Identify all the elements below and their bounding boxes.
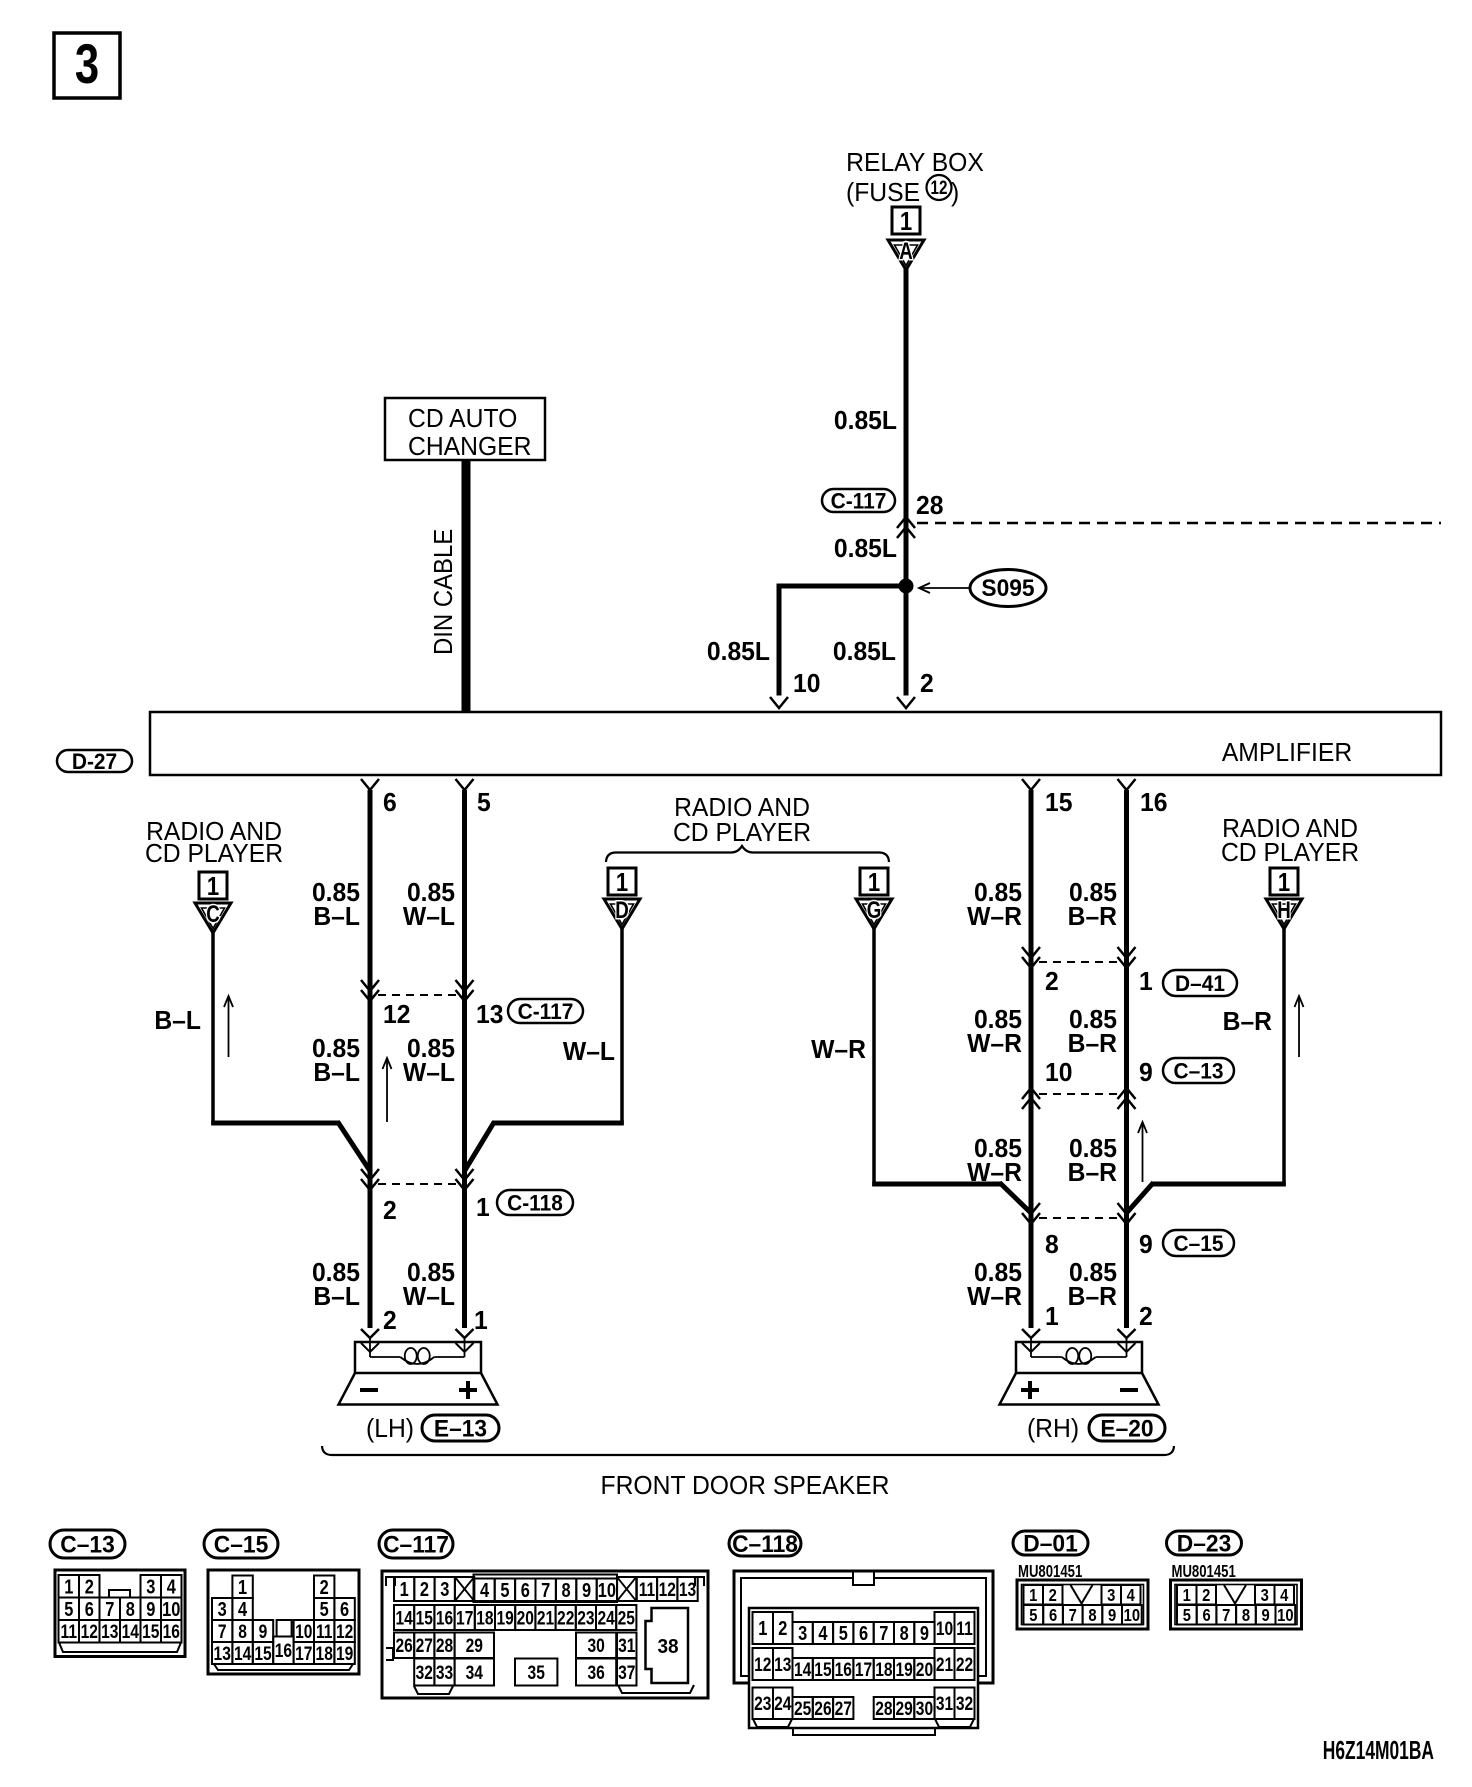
svg-text:B–R: B–R bbox=[1068, 1029, 1117, 1058]
connector C-117 pinout bbox=[379, 1530, 453, 1558]
svg-text:16: 16 bbox=[436, 1607, 454, 1629]
svg-text:7: 7 bbox=[879, 1622, 888, 1645]
svg-text:E–13: E–13 bbox=[434, 1415, 487, 1442]
svg-text:1: 1 bbox=[400, 1578, 409, 1601]
svg-text:18: 18 bbox=[476, 1607, 494, 1629]
svg-text:8: 8 bbox=[126, 1597, 135, 1620]
svg-text:W–R: W–R bbox=[967, 1029, 1022, 1058]
triangle connector H bbox=[1266, 899, 1302, 929]
svg-text:9: 9 bbox=[1262, 1606, 1270, 1626]
svg-text:1: 1 bbox=[1183, 1586, 1191, 1606]
svg-text:4: 4 bbox=[480, 1578, 490, 1601]
wire B-R from H bbox=[1282, 928, 1286, 1186]
connector pin box 1 (D) bbox=[608, 868, 636, 895]
svg-text:2: 2 bbox=[1139, 1302, 1153, 1331]
svg-text:10: 10 bbox=[1277, 1606, 1293, 1626]
svg-text:0.85L: 0.85L bbox=[834, 534, 897, 563]
svg-text:2: 2 bbox=[383, 1196, 397, 1225]
svg-text:9: 9 bbox=[1108, 1606, 1116, 1626]
svg-text:5: 5 bbox=[1029, 1606, 1037, 1626]
svg-text:18: 18 bbox=[875, 1658, 893, 1680]
front door speaker bracket bbox=[322, 1446, 1174, 1455]
svg-text:2: 2 bbox=[778, 1617, 787, 1640]
wire B-L diagonal bbox=[338, 1122, 371, 1172]
svg-text:12: 12 bbox=[659, 1578, 676, 1600]
svg-text:CD PLAYER: CD PLAYER bbox=[1221, 838, 1359, 867]
svg-text:38: 38 bbox=[657, 1636, 678, 1659]
svg-text:D–41: D–41 bbox=[1175, 971, 1225, 996]
page number box 3 bbox=[54, 33, 120, 98]
svg-text:(LH): (LH) bbox=[366, 1414, 414, 1443]
svg-text:29: 29 bbox=[895, 1697, 913, 1719]
fork terminal amplifier pin 5 bbox=[456, 779, 474, 790]
svg-text:12: 12 bbox=[754, 1653, 771, 1675]
svg-text:12: 12 bbox=[383, 1000, 410, 1029]
wire B-R diagonal bbox=[1127, 1183, 1154, 1214]
svg-text:12: 12 bbox=[81, 1621, 98, 1643]
svg-text:B–L: B–L bbox=[313, 902, 360, 931]
svg-text:3: 3 bbox=[798, 1622, 807, 1645]
svg-text:29: 29 bbox=[466, 1635, 484, 1657]
svg-text:14: 14 bbox=[794, 1658, 812, 1680]
svg-text:): ) bbox=[951, 178, 959, 207]
brace over D and G bbox=[606, 846, 889, 862]
svg-text:7: 7 bbox=[1069, 1606, 1077, 1626]
connector pin box 1 (C) bbox=[199, 872, 227, 899]
svg-text:32: 32 bbox=[956, 1693, 973, 1715]
chevrons D-41 crossing wire 16 bbox=[1118, 957, 1136, 968]
svg-text:4: 4 bbox=[1127, 1586, 1136, 1606]
svg-text:1: 1 bbox=[758, 1617, 767, 1640]
svg-text:6: 6 bbox=[1202, 1606, 1210, 1626]
svg-text:30: 30 bbox=[916, 1697, 933, 1719]
svg-text:28: 28 bbox=[916, 491, 943, 520]
svg-text:W–L: W–L bbox=[403, 1058, 455, 1087]
svg-text:B–R: B–R bbox=[1068, 902, 1117, 931]
svg-text:15: 15 bbox=[416, 1607, 434, 1629]
svg-text:1: 1 bbox=[474, 1306, 488, 1335]
wire B-R horizontal bbox=[1152, 1182, 1286, 1187]
svg-text:2: 2 bbox=[420, 1578, 429, 1601]
S095 label oval bbox=[970, 570, 1046, 607]
svg-text:C–13: C–13 bbox=[1174, 1059, 1224, 1084]
svg-text:32: 32 bbox=[416, 1661, 433, 1683]
triangle connector G bbox=[856, 899, 892, 929]
svg-text:1: 1 bbox=[616, 868, 628, 897]
connector C-13 capsule bbox=[1163, 1058, 1234, 1083]
svg-text:1: 1 bbox=[1139, 967, 1153, 996]
connector C-117 capsule (wire 28) bbox=[822, 489, 895, 512]
svg-text:2: 2 bbox=[85, 1575, 94, 1598]
svg-text:13: 13 bbox=[476, 1000, 503, 1029]
svg-text:(FUSE: (FUSE bbox=[846, 178, 920, 207]
splice junction S095 dot bbox=[899, 579, 914, 594]
svg-text:1: 1 bbox=[207, 872, 219, 901]
svg-text:C: C bbox=[206, 901, 220, 928]
chevrons D-41 crossing wire 15 bbox=[1022, 957, 1040, 968]
svg-text:B–R: B–R bbox=[1223, 1007, 1272, 1036]
fork terminal amplifier pin 16 bbox=[1118, 779, 1136, 790]
svg-text:37: 37 bbox=[618, 1661, 635, 1683]
svg-text:3: 3 bbox=[75, 33, 99, 95]
svg-text:3: 3 bbox=[1261, 1586, 1269, 1606]
connector pin box 1 (G) bbox=[860, 868, 888, 895]
connector D-41 capsule bbox=[1163, 970, 1237, 996]
svg-text:W–L: W–L bbox=[563, 1037, 615, 1066]
svg-text:4: 4 bbox=[818, 1622, 828, 1645]
arrow up (between B-L and W-L) bbox=[386, 1058, 388, 1122]
svg-text:B–L: B–L bbox=[313, 1282, 360, 1311]
svg-text:22: 22 bbox=[956, 1653, 973, 1675]
svg-text:B–R: B–R bbox=[1068, 1282, 1117, 1311]
svg-text:21: 21 bbox=[537, 1607, 555, 1629]
fork terminal wire 2 bbox=[897, 697, 915, 708]
wire from amplifier pin 15 bbox=[1029, 790, 1034, 1328]
svg-text:9: 9 bbox=[259, 1620, 268, 1642]
svg-text:16: 16 bbox=[275, 1640, 293, 1662]
dashed line to C-117 bbox=[917, 522, 1441, 525]
svg-text:17: 17 bbox=[855, 1658, 872, 1680]
svg-text:19: 19 bbox=[496, 1607, 514, 1629]
svg-text:14: 14 bbox=[234, 1642, 252, 1664]
dashed connector line C-117 bbox=[378, 994, 457, 996]
CD auto changer box bbox=[385, 398, 545, 460]
connector C-118 capsule bbox=[497, 1190, 573, 1215]
svg-text:1: 1 bbox=[900, 207, 912, 236]
svg-text:5: 5 bbox=[64, 1597, 73, 1620]
svg-text:27: 27 bbox=[835, 1697, 852, 1719]
svg-text:4: 4 bbox=[238, 1598, 248, 1621]
arrow up (B-L) bbox=[228, 996, 230, 1057]
svg-text:19: 19 bbox=[336, 1642, 354, 1664]
svg-text:(RH): (RH) bbox=[1027, 1414, 1079, 1443]
wire W-R horizontal bbox=[872, 1182, 1001, 1187]
svg-text:31: 31 bbox=[618, 1635, 636, 1657]
svg-text:3: 3 bbox=[440, 1578, 449, 1601]
svg-text:24: 24 bbox=[597, 1607, 615, 1629]
svg-text:W–R: W–R bbox=[967, 1158, 1022, 1187]
svg-text:C-117: C-117 bbox=[831, 489, 887, 514]
svg-text:CD AUTO: CD AUTO bbox=[408, 404, 517, 433]
connector pin box 1 (H) bbox=[1270, 868, 1298, 895]
svg-text:D-27: D-27 bbox=[72, 749, 117, 774]
svg-text:E–20: E–20 bbox=[1100, 1415, 1153, 1442]
DIN cable (thick wire) bbox=[462, 460, 471, 711]
svg-text:24: 24 bbox=[774, 1693, 792, 1715]
svg-text:W–R: W–R bbox=[811, 1035, 866, 1064]
svg-text:5: 5 bbox=[320, 1598, 329, 1621]
front door speaker RH bbox=[1022, 1329, 1040, 1338]
svg-text:15: 15 bbox=[1045, 788, 1072, 817]
svg-text:5: 5 bbox=[477, 788, 491, 817]
svg-text:13: 13 bbox=[679, 1578, 697, 1600]
connector C-13 pinout bbox=[50, 1530, 125, 1558]
svg-text:10: 10 bbox=[1124, 1606, 1140, 1626]
svg-text:10: 10 bbox=[793, 669, 820, 698]
connector C-118 pinout bbox=[729, 1531, 801, 1556]
connector pin box 1 (relay box) bbox=[892, 207, 920, 234]
svg-text:W–R: W–R bbox=[967, 902, 1022, 931]
svg-text:11: 11 bbox=[639, 1578, 656, 1600]
svg-text:6: 6 bbox=[1049, 1606, 1057, 1626]
svg-text:23: 23 bbox=[754, 1693, 772, 1715]
chevrons C-13 crossing wire 16 bbox=[1118, 1088, 1136, 1099]
arrow up (B-R) bbox=[1298, 996, 1300, 1057]
svg-text:C–15: C–15 bbox=[1174, 1231, 1224, 1256]
connector D-27 capsule bbox=[57, 750, 132, 772]
svg-text:8: 8 bbox=[562, 1578, 571, 1601]
svg-text:3: 3 bbox=[1107, 1586, 1115, 1606]
svg-text:RELAY BOX: RELAY BOX bbox=[846, 148, 984, 177]
svg-text:CD PLAYER: CD PLAYER bbox=[673, 818, 811, 847]
svg-text:6: 6 bbox=[383, 788, 397, 817]
wire from amplifier pin 16 bbox=[1124, 790, 1129, 1328]
connector E-13 capsule bbox=[422, 1415, 499, 1441]
svg-text:9: 9 bbox=[1139, 1058, 1153, 1087]
wire from amplifier pin 6 bbox=[368, 790, 373, 1328]
svg-text:20: 20 bbox=[916, 1658, 933, 1680]
svg-text:8: 8 bbox=[238, 1620, 247, 1642]
fork terminal amplifier pin 6 bbox=[361, 779, 379, 790]
svg-text:5: 5 bbox=[500, 1578, 509, 1601]
svg-text:11: 11 bbox=[61, 1621, 78, 1643]
svg-text:12: 12 bbox=[336, 1620, 353, 1642]
svg-text:8: 8 bbox=[1045, 1230, 1059, 1259]
svg-text:8: 8 bbox=[1242, 1606, 1250, 1626]
svg-text:DIN CABLE: DIN CABLE bbox=[429, 529, 458, 655]
svg-text:C–117: C–117 bbox=[383, 1531, 449, 1558]
chevrons C-13 crossing wire 15 bbox=[1022, 1088, 1040, 1099]
svg-text:2: 2 bbox=[1045, 967, 1059, 996]
svg-text:13: 13 bbox=[101, 1621, 119, 1643]
svg-text:W–L: W–L bbox=[403, 1282, 455, 1311]
chevrons C-118 crossing left wire bbox=[361, 1179, 379, 1190]
svg-text:23: 23 bbox=[577, 1607, 595, 1629]
front door speaker LH bbox=[361, 1329, 379, 1338]
svg-text:7: 7 bbox=[218, 1620, 227, 1642]
connector D-01 pinout bbox=[1013, 1531, 1088, 1555]
svg-text:15: 15 bbox=[254, 1642, 272, 1664]
svg-text:20: 20 bbox=[517, 1607, 534, 1629]
chevrons C-15 crossing wire 16 bbox=[1118, 1213, 1136, 1224]
triangle connector A bbox=[888, 240, 924, 270]
svg-text:W–L: W–L bbox=[403, 902, 455, 931]
svg-text:14: 14 bbox=[395, 1607, 413, 1629]
svg-text:1: 1 bbox=[1029, 1586, 1037, 1606]
svg-text:36: 36 bbox=[587, 1661, 605, 1683]
svg-text:10: 10 bbox=[1045, 1058, 1072, 1087]
svg-text:12: 12 bbox=[931, 176, 948, 198]
svg-text:15: 15 bbox=[142, 1621, 160, 1643]
svg-text:0.85L: 0.85L bbox=[833, 637, 896, 666]
svg-text:1: 1 bbox=[868, 868, 880, 897]
svg-text:1: 1 bbox=[1278, 868, 1290, 897]
svg-text:28: 28 bbox=[436, 1635, 454, 1657]
svg-text:0.85L: 0.85L bbox=[707, 637, 770, 666]
svg-text:11: 11 bbox=[316, 1620, 333, 1642]
svg-text:18: 18 bbox=[316, 1642, 334, 1664]
svg-text:7: 7 bbox=[105, 1597, 114, 1620]
svg-text:C-117: C-117 bbox=[518, 999, 574, 1024]
chevrons C-117 crossing left wire bbox=[361, 990, 379, 1001]
svg-text:A: A bbox=[899, 238, 913, 265]
svg-text:B–R: B–R bbox=[1068, 1158, 1117, 1187]
connector C-15 capsule bbox=[1163, 1230, 1234, 1256]
svg-text:CHANGER: CHANGER bbox=[408, 432, 531, 461]
svg-text:C–15: C–15 bbox=[214, 1531, 268, 1558]
wire B-L horizontal bbox=[211, 1121, 339, 1126]
svg-text:10: 10 bbox=[162, 1597, 180, 1620]
svg-text:28: 28 bbox=[875, 1697, 893, 1719]
svg-text:G: G bbox=[867, 897, 882, 924]
svg-text:6: 6 bbox=[521, 1578, 530, 1601]
wire W-L diagonal bbox=[465, 1122, 495, 1172]
svg-text:1: 1 bbox=[1045, 1302, 1059, 1331]
svg-text:16: 16 bbox=[1140, 788, 1167, 817]
svg-text:D–01: D–01 bbox=[1023, 1530, 1077, 1557]
fork terminal amplifier pin 15 bbox=[1022, 779, 1040, 790]
svg-text:7: 7 bbox=[1222, 1606, 1230, 1626]
connector C-15 pinout bbox=[204, 1530, 278, 1558]
svg-text:16: 16 bbox=[163, 1621, 181, 1643]
svg-text:25: 25 bbox=[794, 1697, 812, 1719]
svg-text:34: 34 bbox=[466, 1661, 484, 1683]
svg-text:H: H bbox=[1277, 897, 1291, 924]
chevrons C-117 crossing right wire bbox=[456, 990, 474, 1001]
svg-text:2: 2 bbox=[1049, 1586, 1057, 1606]
svg-text:15: 15 bbox=[814, 1658, 832, 1680]
svg-text:C–13: C–13 bbox=[60, 1531, 114, 1558]
wire from amplifier pin 5 bbox=[462, 790, 467, 1328]
wire W-R diagonal bbox=[1000, 1183, 1032, 1214]
svg-text:2: 2 bbox=[1202, 1586, 1210, 1606]
dashed connector line C-118 bbox=[378, 1183, 457, 1185]
svg-text:25: 25 bbox=[618, 1607, 636, 1629]
svg-text:B–L: B–L bbox=[313, 1058, 360, 1087]
svg-text:8: 8 bbox=[1088, 1606, 1096, 1626]
svg-text:2: 2 bbox=[383, 1306, 397, 1335]
svg-text:D–23: D–23 bbox=[1177, 1530, 1231, 1557]
triangle connector C bbox=[195, 903, 231, 933]
svg-text:19: 19 bbox=[895, 1658, 913, 1680]
svg-text:9: 9 bbox=[146, 1597, 155, 1620]
svg-text:33: 33 bbox=[436, 1661, 454, 1683]
svg-text:D: D bbox=[615, 897, 629, 924]
svg-text:9: 9 bbox=[582, 1578, 591, 1601]
connector E-20 capsule bbox=[1089, 1415, 1165, 1441]
wire B-L from C bbox=[211, 932, 215, 1125]
svg-text:5: 5 bbox=[839, 1622, 848, 1645]
splice branch wire (horizontal) bbox=[777, 584, 907, 589]
arrow from S095 to junction bbox=[921, 587, 970, 589]
svg-text:5: 5 bbox=[1183, 1606, 1191, 1626]
svg-text:14: 14 bbox=[122, 1621, 140, 1643]
svg-text:6: 6 bbox=[85, 1597, 94, 1620]
svg-text:C-118: C-118 bbox=[507, 1191, 563, 1216]
svg-text:17: 17 bbox=[295, 1642, 312, 1664]
wire W-R from G bbox=[872, 928, 876, 1186]
svg-text:9: 9 bbox=[920, 1622, 929, 1645]
svg-text:2: 2 bbox=[920, 669, 934, 698]
svg-text:10: 10 bbox=[598, 1578, 616, 1601]
svg-text:26: 26 bbox=[395, 1635, 413, 1657]
svg-text:S095: S095 bbox=[981, 574, 1034, 601]
svg-text:10: 10 bbox=[295, 1620, 312, 1642]
svg-text:8: 8 bbox=[900, 1622, 909, 1645]
connector D-23 pinout bbox=[1167, 1531, 1242, 1555]
svg-text:3: 3 bbox=[146, 1575, 155, 1598]
svg-text:1: 1 bbox=[64, 1575, 73, 1598]
svg-text:1: 1 bbox=[476, 1193, 490, 1222]
wire W-L horizontal bbox=[493, 1121, 624, 1126]
svg-text:4: 4 bbox=[167, 1575, 177, 1598]
svg-text:13: 13 bbox=[774, 1653, 792, 1675]
svg-text:17: 17 bbox=[456, 1607, 473, 1629]
svg-text:CD PLAYER: CD PLAYER bbox=[145, 839, 283, 868]
svg-text:11: 11 bbox=[956, 1617, 973, 1639]
splice left branch wire (vertical) bbox=[777, 584, 782, 696]
svg-text:B–L: B–L bbox=[154, 1006, 201, 1035]
dashed connector line D-41 bbox=[1039, 961, 1118, 963]
svg-text:C–118: C–118 bbox=[732, 1531, 798, 1558]
svg-text:7: 7 bbox=[541, 1578, 550, 1601]
chevrons C-118 crossing right wire bbox=[456, 1179, 474, 1190]
triangle connector D bbox=[604, 899, 640, 929]
svg-text:0.85L: 0.85L bbox=[834, 406, 897, 435]
connector pass-through chevrons at C-117 pin 28 bbox=[897, 517, 915, 528]
svg-text:27: 27 bbox=[416, 1635, 433, 1657]
svg-text:FRONT DOOR SPEAKER: FRONT DOOR SPEAKER bbox=[601, 1471, 890, 1500]
svg-text:H6Z14M01BA: H6Z14M01BA bbox=[1323, 1736, 1434, 1765]
dashed connector line C-15 bbox=[1039, 1217, 1118, 1219]
svg-text:4: 4 bbox=[1280, 1586, 1289, 1606]
svg-text:10: 10 bbox=[936, 1617, 953, 1639]
svg-text:3: 3 bbox=[218, 1598, 227, 1621]
svg-text:9: 9 bbox=[1139, 1230, 1153, 1259]
svg-text:W–R: W–R bbox=[967, 1282, 1022, 1311]
svg-text:21: 21 bbox=[936, 1653, 954, 1675]
wire W-L from D bbox=[620, 928, 624, 1125]
svg-text:16: 16 bbox=[835, 1658, 853, 1680]
fork terminal wire 10 bbox=[770, 697, 788, 708]
amplifier box bbox=[150, 712, 1441, 775]
dashed connector line C-13 bbox=[1039, 1093, 1118, 1095]
svg-text:13: 13 bbox=[214, 1642, 232, 1664]
svg-text:31: 31 bbox=[936, 1693, 954, 1715]
connector C-117 capsule (lower) bbox=[508, 999, 583, 1023]
svg-text:1: 1 bbox=[238, 1575, 247, 1598]
svg-text:22: 22 bbox=[557, 1607, 574, 1629]
chevrons C-15 crossing wire 15 bbox=[1022, 1213, 1040, 1224]
svg-text:26: 26 bbox=[814, 1697, 832, 1719]
svg-text:AMPLIFIER: AMPLIFIER bbox=[1222, 738, 1352, 767]
wire 0.85L from relay box (vertical) bbox=[904, 269, 909, 696]
arrow up (B-R joins wire 16) bbox=[1142, 1122, 1144, 1182]
svg-text:30: 30 bbox=[587, 1635, 604, 1657]
svg-text:2: 2 bbox=[320, 1575, 329, 1598]
svg-text:6: 6 bbox=[340, 1598, 349, 1621]
svg-text:35: 35 bbox=[528, 1661, 546, 1683]
svg-text:6: 6 bbox=[859, 1622, 868, 1645]
